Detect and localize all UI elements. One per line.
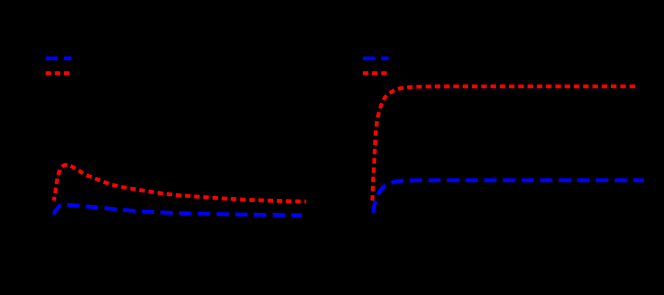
legend line blue (left panel) — [46, 57, 71, 61]
blue dashed curve (right panel) — [373, 180, 644, 217]
legend line red (left panel) — [46, 71, 71, 75]
legend line red (right panel) — [363, 71, 388, 75]
legend line blue (right panel) — [363, 57, 389, 61]
red dotted curve (right panel) — [372, 86, 635, 200]
blue dashed curve (left panel) — [54, 205, 302, 218]
red dotted curve (left panel) — [54, 165, 306, 202]
